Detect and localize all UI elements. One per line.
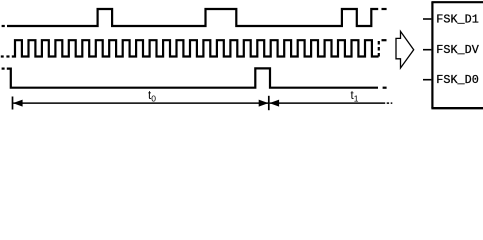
- node t0/t1 middle extension tick: [268, 96, 270, 110]
- wire FSK_D1 waveform: [7, 9, 378, 26]
- wire FSK_DV trailing dash: [382, 39, 387, 41]
- wire FSK_D1 trailing dash: [382, 8, 387, 10]
- wire t0 dimension line: [13, 102, 268, 104]
- IC box left edge: [431, 2, 433, 108]
- wire t1 trailing dots: [387, 102, 393, 104]
- wire FSK_DV dashed rising edge: [378, 40, 380, 56]
- wire t1 dimension line: [270, 102, 386, 104]
- wire FSK_D0 waveform: [7, 68, 378, 87]
- wire FSK_D0 trailing dash: [383, 87, 387, 89]
- wire FSK_DV clock waveform: [12, 40, 379, 56]
- arrowhead t0 left: [13, 100, 23, 107]
- pin tick FSK_D0: [423, 79, 431, 81]
- arrowhead t0 right: [259, 100, 269, 107]
- node t0 left extension tick: [12, 97, 14, 110]
- IC box top edge: [431, 1, 483, 3]
- wire FSK_D0 lead-in dash: [2, 67, 5, 69]
- IC box bottom edge: [431, 107, 483, 109]
- svg-text:FSK_DV: FSK_DV: [436, 43, 479, 57]
- wire FSK_DV lead-in dash 2: [6, 55, 9, 57]
- pin tick FSK_D1: [423, 18, 431, 20]
- wire FSK_DV lead-in dash 1: [1, 55, 4, 57]
- svg-text:FSK_D1: FSK_D1: [436, 13, 478, 27]
- svg-text:FSK_D0: FSK_D0: [436, 73, 478, 87]
- block arrow pointing right: [396, 31, 414, 68]
- arrowhead t1 left: [269, 100, 279, 107]
- wire FSK_D1 lead-in dash: [2, 25, 5, 27]
- pin tick FSK_DV: [423, 49, 431, 51]
